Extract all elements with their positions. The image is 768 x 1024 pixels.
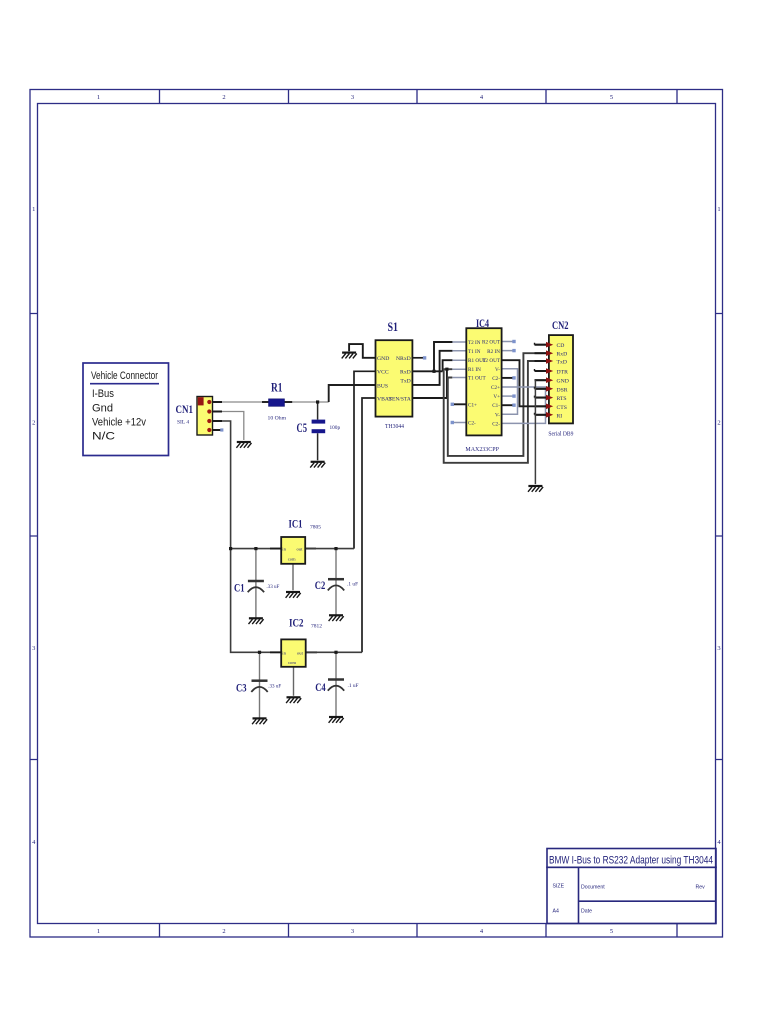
- svg-text:Document: Document: [581, 885, 605, 891]
- svg-text:5: 5: [610, 94, 613, 101]
- svg-text:T2 OUT: T2 OUT: [482, 358, 501, 364]
- svg-text:TxD: TxD: [400, 379, 410, 385]
- svg-text:Gnd: Gnd: [92, 403, 113, 415]
- svg-text:1: 1: [717, 206, 720, 213]
- svg-text:.1 uF: .1 uF: [348, 683, 359, 689]
- svg-text:R1: R1: [271, 381, 283, 395]
- svg-text:I-Bus: I-Bus: [92, 388, 114, 400]
- svg-text:C2-: C2-: [468, 421, 476, 427]
- svg-text:IC1: IC1: [289, 517, 303, 531]
- svg-text:1: 1: [32, 206, 35, 213]
- svg-text:C2: C2: [315, 578, 326, 592]
- svg-text:GND: GND: [377, 356, 389, 362]
- svg-text:Rev: Rev: [696, 885, 706, 891]
- svg-text:GND: GND: [557, 379, 569, 385]
- svg-text:C1: C1: [234, 581, 245, 595]
- svg-text:NRxD: NRxD: [396, 356, 411, 362]
- svg-text:TH3044: TH3044: [385, 424, 404, 430]
- svg-text:C5: C5: [297, 420, 308, 435]
- svg-text:T2 IN: T2 IN: [468, 340, 481, 346]
- svg-text:BMW I-Bus to RS232 Adapter usi: BMW I-Bus to RS232 Adapter using TH3044: [549, 855, 713, 867]
- svg-text:3: 3: [351, 94, 354, 101]
- svg-text:2: 2: [222, 94, 225, 101]
- svg-text:SIZE: SIZE: [553, 884, 565, 890]
- svg-text:1: 1: [97, 928, 100, 935]
- svg-text:3: 3: [32, 645, 35, 652]
- svg-text:C2+: C2+: [491, 385, 500, 391]
- svg-text:4: 4: [480, 94, 484, 101]
- svg-text:2: 2: [717, 420, 720, 427]
- svg-text:SIL 4: SIL 4: [177, 420, 189, 426]
- svg-text:RTS: RTS: [557, 396, 567, 402]
- svg-text:RI: RI: [557, 413, 563, 419]
- svg-text:TxD: TxD: [557, 360, 567, 366]
- svg-text:BUS: BUS: [377, 383, 388, 389]
- svg-text:Date: Date: [581, 909, 592, 915]
- svg-text:T1 IN: T1 IN: [468, 349, 481, 355]
- svg-text:C2-: C2-: [492, 376, 500, 382]
- svg-text:N/C: N/C: [92, 431, 115, 443]
- svg-text:4: 4: [717, 839, 721, 846]
- svg-text:out: out: [297, 547, 304, 552]
- svg-text:RxD: RxD: [557, 352, 568, 358]
- svg-text:C3: C3: [236, 681, 247, 695]
- svg-text:Vehicle +12v: Vehicle +12v: [92, 417, 146, 429]
- svg-text:DSR: DSR: [557, 387, 568, 393]
- svg-text:7805: 7805: [310, 525, 321, 531]
- svg-text:Vehicle Connector: Vehicle Connector: [91, 370, 158, 382]
- svg-text:C1-: C1-: [492, 403, 500, 409]
- svg-text:IC2: IC2: [289, 616, 304, 630]
- svg-text:2: 2: [32, 420, 35, 427]
- svg-text:10 Ohm: 10 Ohm: [268, 416, 287, 422]
- svg-text:3: 3: [351, 928, 354, 935]
- svg-text:V-: V-: [495, 412, 500, 418]
- svg-text:4: 4: [32, 839, 36, 846]
- svg-text:3: 3: [717, 645, 720, 652]
- svg-text:RxD: RxD: [400, 370, 411, 376]
- svg-text:V-: V-: [495, 367, 500, 373]
- svg-text:1: 1: [97, 94, 100, 101]
- svg-text:R2 OUT: R2 OUT: [482, 340, 501, 346]
- svg-text:2: 2: [222, 928, 225, 935]
- svg-text:com: com: [288, 660, 296, 665]
- svg-text:MAX233CPP: MAX233CPP: [465, 446, 499, 453]
- svg-text:100p: 100p: [330, 425, 341, 431]
- svg-text:.33 uF: .33 uF: [266, 584, 279, 590]
- svg-text:com: com: [288, 557, 296, 562]
- svg-text:.1 uF: .1 uF: [347, 582, 358, 588]
- svg-text:T1 OUT: T1 OUT: [468, 376, 487, 382]
- svg-text:CN1: CN1: [176, 402, 194, 416]
- svg-text:CTS: CTS: [557, 405, 567, 411]
- svg-text:S1: S1: [388, 320, 399, 334]
- svg-text:C2-: C2-: [492, 421, 500, 427]
- svg-text:C1+: C1+: [468, 402, 477, 408]
- svg-text:.33 uF: .33 uF: [268, 684, 281, 690]
- svg-text:VCC: VCC: [377, 370, 389, 376]
- svg-text:Serial DB9: Serial DB9: [548, 431, 573, 437]
- svg-text:R1 IN: R1 IN: [468, 367, 481, 373]
- svg-text:out: out: [297, 651, 304, 656]
- svg-text:DTR: DTR: [557, 370, 569, 376]
- svg-text:5: 5: [610, 928, 613, 935]
- svg-text:CD: CD: [557, 343, 565, 349]
- svg-text:R2 IN: R2 IN: [487, 349, 500, 355]
- svg-text:A4: A4: [553, 909, 559, 915]
- svg-text:CN2: CN2: [552, 318, 569, 332]
- svg-text:SEN/STA: SEN/STA: [389, 396, 411, 402]
- svg-text:C4: C4: [315, 680, 326, 694]
- svg-text:7812: 7812: [311, 624, 322, 630]
- svg-text:V+: V+: [493, 394, 500, 400]
- svg-text:4: 4: [480, 928, 484, 935]
- svg-text:IC4: IC4: [476, 316, 489, 330]
